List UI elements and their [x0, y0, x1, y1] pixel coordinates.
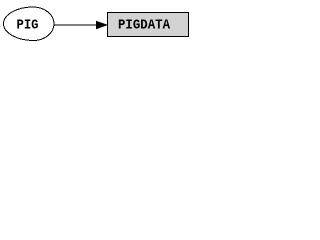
node PIGDATA (filled box)	[108, 13, 189, 37]
wire edge PIG->PIGDATA	[54, 24, 98, 26]
svg-text:PIG: PIG	[17, 19, 39, 34]
svg-text:PIGDATA: PIGDATA	[118, 19, 171, 34]
arrowhead	[97, 22, 107, 29]
node PIG (ellipse)	[4, 7, 55, 41]
